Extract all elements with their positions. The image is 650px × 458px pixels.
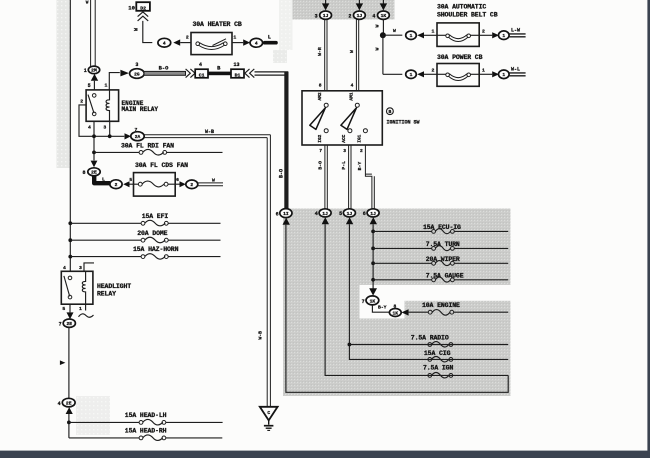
svg-text:4: 4 [255,41,258,47]
connector 1J pin 4 (row) [315,209,331,217]
wire stub L-W [509,27,525,36]
arrow down into 2E [91,161,98,168]
svg-text:2E: 2E [66,321,72,327]
fuse F8: 7.5A IGN [423,365,453,378]
relay K1: engine main relay box [86,90,158,121]
svg-text:IG2: IG2 [317,134,323,142]
svg-text:8: 8 [82,170,85,176]
arrow up into 1J(4) [322,217,329,224]
headlight relay contact [64,276,72,299]
svg-text:HEADLIGHT: HEADLIGHT [97,283,131,290]
wire and pin 2 into heater CB [180,35,191,43]
connector 1K pin 7 [362,296,379,305]
arrow into 2M [91,74,98,81]
svg-text:AM1: AM1 [348,92,354,100]
svg-text:L: L [268,34,271,40]
connector 4 (heater CB left) [158,38,171,47]
svg-text:2: 2 [80,98,83,104]
wire W junction to belt CB connector [385,28,402,35]
connector 1K pin 4 (top) [372,11,389,19]
arrow into right connector 4 [243,39,250,45]
connector 1J pin 6 (row) [363,209,379,217]
fuse F9: 30A FL RDI FAN [92,142,222,155]
node: HEAD-LH tap [67,421,71,425]
ignition terminal IG1 [356,129,367,143]
fuse F1: 15A ECU-IG [373,224,508,234]
svg-text:1J: 1J [357,13,363,19]
connector 1 (power CB right) [499,70,510,79]
pin labels of engine main relay [80,82,107,130]
svg-text:15A HEAD-LH: 15A HEAD-LH [125,412,167,419]
svg-text:7.5A RADIO: 7.5A RADIO [411,335,449,342]
svg-text:1: 1 [233,35,236,41]
junction block D1 pin 13 [231,62,244,78]
svg-text:2E: 2E [66,401,72,407]
svg-text:D2: D2 [140,5,146,11]
svg-text:2M: 2M [91,68,97,74]
arrow into 2G [120,70,128,77]
wire: RADIO fuse row [349,344,508,346]
wire P-L from ACC pin 3 down to 1J (double) [341,145,351,209]
svg-text:3: 3 [79,265,82,271]
svg-text:B-O: B-O [318,161,324,170]
node: TURN tap [371,247,375,251]
svg-text:W-B: W-B [205,129,214,135]
wiper from AM2 [310,108,326,130]
arrow into 2A [125,133,132,139]
node: RADIO tap junction [348,343,352,347]
circled B and IGNITION SW label [387,108,420,126]
wire: 2E(7) down to 2E(4) [68,327,70,398]
arrows down into top connectors [322,0,387,10]
svg-text:4: 4 [351,82,354,88]
svg-text:W: W [374,24,380,27]
fuse F5: 10A ENGINE [409,302,509,315]
svg-text:1J: 1J [322,211,328,217]
ignition terminal IG2 [317,129,328,143]
arrow up into 1I [283,218,290,225]
svg-text:6: 6 [176,177,179,183]
wire: heavy B-O run right then down to 1I [255,72,289,209]
fuse F12: 20A DOME [68,230,220,243]
wire: pin3 stub up-right [84,263,94,271]
wire: 1J(6) bus down to 1K [372,224,374,288]
arrow into power left connector [417,71,424,77]
svg-text:2: 2 [482,28,485,34]
svg-text:1: 1 [502,72,505,78]
fuse F14: 15A HEAD-LH [69,412,223,425]
svg-text:L-W: L-W [511,27,520,33]
svg-text:6: 6 [276,211,279,217]
svg-text:1: 1 [105,82,108,88]
svg-text:10A ENGINE: 10A ENGINE [422,302,460,309]
svg-text:2G: 2G [134,71,140,77]
node: GAUGE tap [371,278,375,282]
svg-text:7.5A GAUGE: 7.5A GAUGE [426,272,464,279]
svg-text:C: C [267,410,270,416]
headlight relay pin labels [62,265,82,312]
svg-text:7.5A TURN: 7.5A TURN [426,241,460,248]
svg-text:15A HEAD-RH: 15A HEAD-RH [125,428,167,435]
wire: 1J(4) bus down to IGN fuse row [325,224,508,375]
svg-text:W: W [349,50,355,53]
svg-text:7: 7 [362,299,365,305]
svg-text:C1: C1 [199,72,205,78]
svg-text:W: W [393,28,396,34]
wire: relay pin4 down to 2E [93,121,95,160]
svg-text:3: 3 [315,13,318,19]
wire B (solid thick) C1 to D1 [208,65,231,75]
arrow into CDS left connector [123,181,129,187]
relay K2: headlight relay box [61,271,131,304]
shaded band (top connector row) [293,0,395,20]
svg-text:30A AUTOMATIC: 30A AUTOMATIC [437,4,486,11]
ignition terminal AM1 [348,92,359,107]
pin 5 label and wire to engine main relay [88,81,95,90]
svg-text:RELAY: RELAY [97,291,116,298]
svg-text:4: 4 [58,401,61,407]
shaded fuse-block region (right) [283,209,511,397]
circuit breaker CB2: 30A AUTOMATIC SHOULDER BELT CB [437,4,498,47]
connector 1J pin 3 (top) [315,11,332,19]
wire and pin 1 out of heater CB [232,35,243,43]
arrow marker on wire [60,360,66,365]
wire: relay pin3 down [109,121,111,136]
svg-text:5: 5 [88,83,91,89]
svg-text:B-Y: B-Y [378,304,387,310]
double chevron into C1 [186,69,195,78]
arrow into power right connector [492,71,499,77]
wire: relay pin1 up to 2G row [109,73,120,90]
wire L (thick) 2E to CDS fan connector [94,176,110,183]
arrow into 1K(8) [401,309,408,315]
arrow into belt right connector [492,32,499,38]
svg-text:5: 5 [339,211,342,217]
wire: 1I bus down and along bottom to IGN fuse output [286,225,508,393]
wiper from AM1 [341,108,357,130]
svg-text:7: 7 [319,148,322,154]
svg-text:1: 1 [502,33,505,39]
svg-text:W-L: W-L [511,66,520,72]
wire W from 1J to ignition AM1 (double) [349,19,359,90]
connector 2E pin 7 [59,319,76,328]
wire B-O (hollow thick) 2G to C1 [144,65,186,75]
wire W from 1K down to junction [374,19,383,35]
connector 2G pin 3 [130,62,145,78]
svg-text:W-R: W-R [317,47,323,56]
fuse F6: 7.5A RADIO [411,335,453,347]
svg-text:7.5A IGN: 7.5A IGN [423,365,453,372]
svg-text:30A FL CDS FAN: 30A FL CDS FAN [135,162,188,169]
fuse F11: 15A EFI [68,213,220,226]
wire W junction down to power CB row [374,35,402,74]
wire pin 2 into power CB [424,67,437,74]
faint smudge near connector 2E lower left [76,396,110,435]
connector 2E pin 8 [82,168,100,176]
faint scan stripe at far left [57,0,70,168]
circuit breaker CB1: 30A HEATER CB [191,21,242,55]
arrow into belt left connector [417,32,424,38]
svg-text:2: 2 [190,182,193,188]
svg-text:B: B [389,109,392,115]
relay contact (left, pins 5-4) [88,94,96,116]
page border band (bottom) [0,451,650,458]
wire B-Y from IG1 pin 2 down to 1J [357,145,374,209]
svg-text:4: 4 [315,211,318,217]
wire: relay pin2 left and down to 2A row [79,105,124,136]
wire: pin5 down [69,304,71,312]
double chevron up into D2 [138,12,149,21]
svg-text:10: 10 [128,5,135,12]
svg-text:1K: 1K [381,13,387,19]
svg-text:2E: 2E [91,170,97,176]
svg-text:2: 2 [186,35,189,41]
svg-text:L: L [102,176,105,182]
svg-text:3: 3 [343,148,346,154]
svg-text:1J: 1J [323,13,329,19]
fuse F10: 30A FL CDS FAN box [129,162,188,196]
connector 1I pin 6 [276,209,292,218]
arrow into connector 4 [173,39,180,45]
connector 1 (belt CB left) [406,31,417,39]
svg-text:1: 1 [482,67,485,73]
connector 2A pin 7 [131,127,144,141]
connector 1J pin 2 (top) [348,11,365,19]
ignition terminal AM2 [317,92,328,107]
fuse F2: 7.5A TURN [373,241,508,251]
svg-text:4: 4 [88,125,91,131]
svg-text:4: 4 [372,13,375,19]
wire stub W-L [509,66,525,75]
svg-text:W: W [374,47,380,50]
connector 1J pin 5 (row) [339,209,355,217]
node: pin3 at 2A row [108,134,112,138]
ground (body ground C) [260,407,278,431]
svg-text:1I: 1I [283,211,289,217]
svg-text:W: W [133,28,139,31]
wire W out of CDS right (double) [198,177,223,185]
page border bar (right) [647,0,650,458]
svg-text:W: W [86,1,89,6]
wire pin 1 out of power CB [479,67,492,74]
svg-text:4: 4 [163,41,166,47]
svg-text:B: B [217,65,221,71]
switch S1: ignition switch box [302,91,382,145]
svg-text:6: 6 [363,211,366,217]
node: pin4 crossing 2A row [92,134,96,138]
svg-text:2: 2 [348,13,351,19]
connector 4 (heater CB right) [250,38,263,47]
wire: D2 down and right to heater CB left connector, label W [133,21,152,43]
svg-text:2A: 2A [135,134,141,140]
svg-text:1: 1 [79,306,82,312]
svg-text:30A POWER CB: 30A POWER CB [437,54,483,61]
connector 2E pin 4 [58,398,76,407]
headlight relay coil [82,271,85,304]
fuse F3: 20A WIPER [373,256,508,266]
svg-text:AM2: AM2 [317,92,323,100]
connector 2M pin 1 [84,66,100,74]
junction block C1 pin 4 [195,62,208,78]
wire: long left vertical feed [69,0,71,271]
arrow up into 1J(6) [370,217,377,224]
double chevron out of D1 [245,69,255,78]
svg-text:4: 4 [199,62,202,68]
wire: pin1 wavy stub [79,304,94,317]
connector 1 (belt CB right) [499,31,510,40]
wire W-R from 1J to ignition AM2 (double) [317,19,327,90]
junction node (W) [380,32,386,38]
wire: 1J(5) bus down to CIG fuse row [349,224,508,359]
svg-text:1: 1 [410,72,413,78]
fuse F15: 15A HEAD-RH [69,428,222,441]
svg-text:15A HAZ-HORN: 15A HAZ-HORN [133,246,179,253]
connector 1 (power CB left) [406,70,417,78]
fuse F7: 15A CIG [424,350,453,362]
arrow down into 2E(7) [67,312,74,319]
wire pin 2 out of belt CB [479,28,492,35]
svg-text:B-O: B-O [159,65,169,71]
connector 2 (CDS left) [110,180,122,189]
svg-text:20A WIPER: 20A WIPER [426,256,460,263]
svg-text:MAIN RELAY: MAIN RELAY [122,106,159,113]
svg-text:13: 13 [233,62,239,68]
svg-text:W-B: W-B [257,331,263,340]
connector 2 (CDS right) [186,180,198,189]
svg-text:2: 2 [115,182,118,188]
svg-text:30A FL RDI FAN: 30A FL RDI FAN [121,142,174,149]
svg-text:P-L: P-L [341,161,347,170]
fuse F13: 15A HAZ-HORN [68,246,220,259]
svg-text:5: 5 [62,306,65,312]
node: ECU-IG tap [371,230,375,234]
svg-text:30A HEATER CB: 30A HEATER CB [193,21,242,28]
arrow up into 1J(5) [346,217,353,224]
svg-text:7: 7 [59,322,62,328]
svg-text:5: 5 [129,177,132,183]
svg-text:1: 1 [410,33,413,39]
wire B-Y from 1K(7) to 1K(8) [372,303,396,312]
arrow up into 2E(4) [66,407,73,414]
svg-text:3: 3 [135,62,138,68]
wire stub L (thick) [263,34,278,44]
circuit breaker CB3: 30A POWER CB [437,54,483,86]
faint scan smudge left of B-O wire [273,50,287,63]
svg-text:IGNITION SW: IGNITION SW [387,120,420,126]
svg-text:1K: 1K [370,298,376,304]
svg-text:B-Y: B-Y [357,162,363,171]
svg-text:D1: D1 [235,72,241,78]
node: WIPER tap [371,261,375,265]
svg-text:1: 1 [432,28,435,34]
svg-text:3: 3 [103,125,106,131]
svg-text:20A DOME: 20A DOME [137,230,167,237]
svg-text:SHOULDER BELT CB: SHOULDER BELT CB [437,11,498,18]
wire B-O from IG2 pin 7 down to 1J (double) [318,145,328,209]
svg-text:7: 7 [135,127,138,133]
wire: W feed to connector 2M (double line) [86,0,95,67]
svg-text:1: 1 [84,68,87,74]
svg-text:1J: 1J [370,211,376,217]
svg-text:B-O: B-O [278,169,284,178]
svg-text:1K: 1K [392,310,398,316]
svg-text:15A EFI: 15A EFI [142,213,169,220]
svg-text:IG1: IG1 [356,134,362,142]
relay coil (right, pins 1-3) [106,90,109,121]
arrow into CDS right connector [180,181,186,187]
connector D2 pin 10 [128,2,150,12]
svg-text:2: 2 [432,67,435,73]
ignition terminal ACC [341,129,352,143]
arrow down into 1K [369,288,377,295]
wire pin 1 into belt CB [424,28,437,35]
svg-text:2: 2 [360,148,363,154]
fuse F4: 7.5A GAUGE [373,272,508,282]
connector 1K pin 8 [389,309,401,317]
svg-text:ACC: ACC [341,134,347,142]
wire W-B from 2A to ground run (double) [144,129,270,407]
svg-text:4: 4 [63,265,66,271]
svg-text:1J: 1J [347,211,353,217]
svg-text:8: 8 [319,82,322,88]
wire: down to headlamp rows [68,414,70,438]
